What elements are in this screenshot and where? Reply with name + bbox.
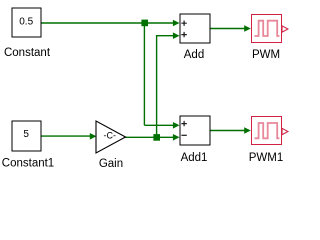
constant block Constant xyxy=(12,8,41,37)
arrowhead at Add1 input 2 xyxy=(173,134,180,141)
wire: Constant1 output to Gain input xyxy=(41,135,91,137)
wire: branch right to Add1 input 1 xyxy=(144,124,173,126)
svg-text:5: 5 xyxy=(23,129,29,140)
arrowhead at Gain input xyxy=(90,133,97,140)
svg-text:Add1: Add1 xyxy=(181,152,208,164)
wire: Gain output to Add1 input 2 xyxy=(125,136,173,138)
scope block PWM1 xyxy=(252,117,288,145)
sum block Add1 xyxy=(180,116,210,145)
wire: branch down from junction A xyxy=(143,23,145,125)
svg-text:Constant: Constant xyxy=(4,47,51,59)
sum block Add xyxy=(180,14,210,43)
wire: Add output to PWM input xyxy=(210,28,245,30)
svg-text:0.5: 0.5 xyxy=(19,17,33,28)
arrowhead at Add input 1 xyxy=(173,20,180,27)
scope block PWM xyxy=(252,15,288,43)
arrowhead at Add1 input 1 xyxy=(173,122,180,129)
gain block Gain xyxy=(96,121,126,153)
wire: branch up from junction B to Add input 2 xyxy=(157,36,174,138)
svg-text:PWM: PWM xyxy=(252,49,280,61)
arrowhead at Add input 2 xyxy=(173,32,180,39)
constant block Constant1 xyxy=(12,121,41,151)
svg-text:Add: Add xyxy=(184,49,204,61)
svg-text:-C-: -C- xyxy=(104,130,117,140)
svg-text:Gain: Gain xyxy=(99,158,123,170)
arrowhead at PWM input xyxy=(244,25,251,32)
wire: Add1 output to PWM1 input xyxy=(210,130,245,132)
svg-text:Constant1: Constant1 xyxy=(2,158,54,170)
junction B on Gain wire xyxy=(153,134,160,141)
wire: Constant output to Add input 1 xyxy=(41,22,174,24)
arrowhead at PWM1 input xyxy=(244,127,251,134)
junction A on Constant wire xyxy=(141,20,148,27)
svg-text:PWM1: PWM1 xyxy=(249,152,284,164)
